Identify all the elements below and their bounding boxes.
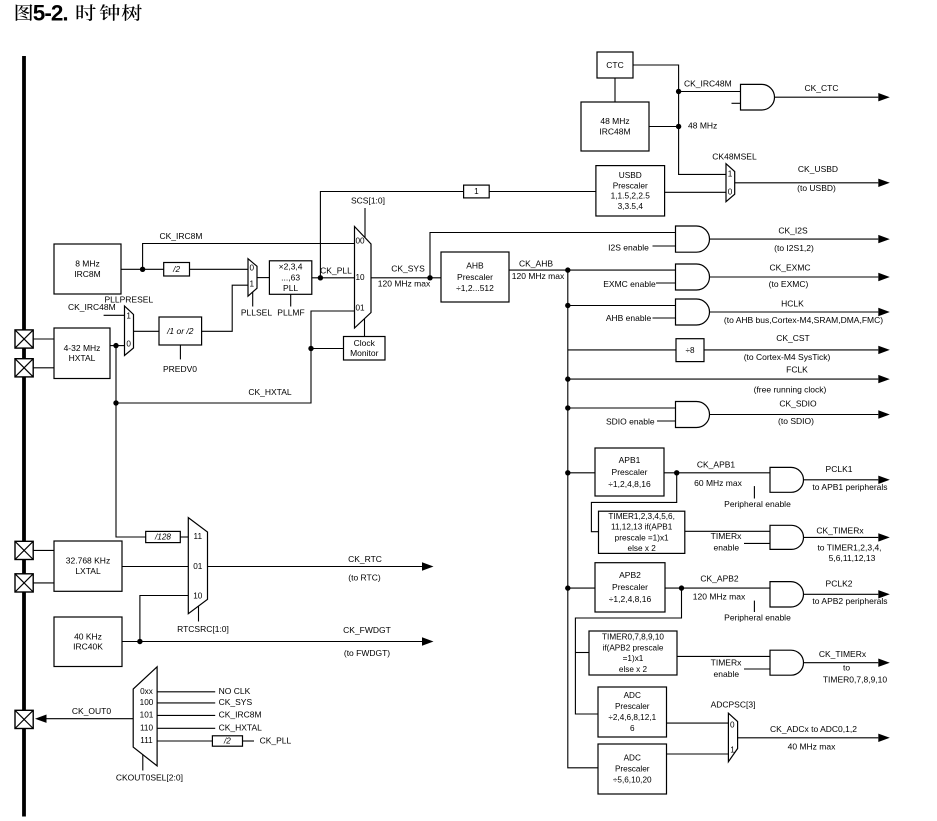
enable label peripheral (APB2) (724, 612, 791, 622)
svg-text:to TIMER1,2,3,4,: to TIMER1,2,3,4, (817, 542, 881, 552)
pin OSC32OUT (LXTAL) (15, 574, 33, 592)
svg-text:(to USBD): (to USBD) (797, 183, 836, 193)
arrow CK_FWDGT (140, 625, 434, 658)
svg-text:to APB1 peripherals: to APB1 peripherals (812, 482, 887, 492)
svg-text:ADC: ADC (624, 754, 641, 763)
junction IRC8M output (140, 267, 145, 272)
net label PREDV0 (163, 364, 197, 374)
svg-text:CK_TIMERx: CK_TIMERx (819, 649, 867, 659)
svg-text:TIMERx: TIMERx (711, 658, 742, 668)
block USBD Prescaler (596, 166, 665, 216)
svg-text:CK_EXMC: CK_EXMC (769, 262, 810, 272)
net label 120 MHz max (CK_SYS) (378, 279, 431, 289)
arrow CK_TIMERx (APB1) (804, 525, 890, 563)
svg-text:=1)x1: =1)x1 (623, 654, 644, 663)
net label RTCSRC[1:0] (177, 624, 229, 634)
mux SCS (system clock select) (355, 227, 372, 329)
wire OSCOUT to HXTAL (33, 367, 54, 369)
wire CK_HXTAL input (157, 727, 215, 729)
svg-text:enable: enable (714, 543, 740, 553)
svg-text:IRC48M: IRC48M (599, 126, 630, 136)
svg-text:CTC: CTC (606, 60, 623, 70)
svg-text:120 MHz max: 120 MHz max (512, 271, 565, 281)
net label CK_IRC8M (160, 231, 203, 241)
svg-text:/2: /2 (223, 737, 231, 746)
net label CK_APB2 (700, 574, 739, 584)
net label 120 MHz max (APB2) (693, 592, 746, 602)
svg-text:CK_USBD: CK_USBD (798, 164, 838, 174)
net label ADCPSC[3] (711, 700, 756, 710)
svg-text:/1 or /2: /1 or /2 (166, 326, 194, 336)
stub I2S enable (653, 245, 676, 247)
wire bus to APB1 prescaler (568, 472, 595, 474)
net label CK_SYS (out0) (219, 697, 253, 707)
stub TIMERx enable (APB2) (744, 668, 770, 670)
arrow CK_I2S (710, 226, 890, 253)
stub PLLSEL select (252, 292, 254, 307)
svg-text:10: 10 (355, 273, 365, 282)
wire CK_AHB bus vertical (568, 270, 598, 768)
and-gate SDIO (676, 402, 710, 428)
wire to CTC gate input (679, 91, 741, 93)
stub SCS mux to clock monitor (364, 319, 366, 337)
svg-text:PLLSEL: PLLSEL (241, 308, 272, 318)
wire IRC8M output (121, 268, 164, 270)
stub CKOUT0SEL select (142, 755, 144, 771)
svg-text:÷1,2,4,8,16: ÷1,2,4,8,16 (608, 479, 651, 489)
wire HXTAL out (110, 345, 125, 347)
junction clock monitor tap (308, 346, 313, 351)
svg-text:÷1,2...512: ÷1,2...512 (456, 283, 494, 293)
wire OSCIN to HXTAL (33, 338, 54, 340)
block Clock Monitor (344, 337, 386, 361)
wire CK_IRC8M input (157, 714, 215, 716)
svg-text:Prescaler: Prescaler (615, 702, 650, 711)
svg-text:TIMER0,7,8,9,10: TIMER0,7,8,9,10 (823, 674, 888, 684)
svg-text:CK_APB2: CK_APB2 (700, 574, 739, 584)
wire OSC32OUT to LXTAL (33, 582, 54, 584)
stub PLLMF select (290, 294, 292, 306)
svg-text:Peripheral enable: Peripheral enable (724, 612, 791, 622)
arrow CK_EXMC (710, 262, 890, 289)
svg-text:(to EXMC): (to EXMC) (769, 279, 809, 289)
net label CK_IRC8M (out0) (219, 710, 262, 720)
svg-text:(to RTC): (to RTC) (348, 572, 381, 582)
svg-text:11,12,13 if(APB1: 11,12,13 if(APB1 (611, 523, 673, 532)
mux RTCSRC (188, 518, 207, 614)
svg-text:prescale =1)x1: prescale =1)x1 (615, 533, 669, 542)
wire APB1 to TIMER1 multiplier (591, 473, 676, 532)
svg-text:(to I2S1,2): (to I2S1,2) (774, 243, 814, 253)
svg-text:3,3.5,4: 3,3.5,4 (618, 201, 644, 211)
svg-text:32.768 KHz: 32.768 KHz (66, 556, 110, 566)
and-gate PCLK2 (770, 582, 804, 607)
svg-text:01: 01 (193, 562, 203, 571)
svg-text:÷8: ÷8 (685, 346, 694, 355)
block TIMER1 multiplier (599, 511, 685, 553)
wire CK_SYS input (157, 702, 215, 704)
svg-text:CK_ADCx to ADC0,1,2: CK_ADCx to ADC0,1,2 (770, 724, 857, 734)
svg-text:PCLK2: PCLK2 (826, 578, 853, 588)
mux CKOUT0SEL (left-facing) (133, 667, 157, 766)
svg-text:0: 0 (728, 187, 733, 196)
svg-text:Prescaler: Prescaler (612, 467, 648, 477)
svg-text:5-2.: 5-2. (33, 1, 69, 26)
svg-text:CK_IRC48M: CK_IRC48M (68, 302, 116, 312)
wire 1-box to USBD prescaler (489, 191, 596, 193)
svg-text:to APB2 peripherals: to APB2 peripherals (812, 596, 887, 606)
block PLL multiplier (269, 261, 311, 295)
svg-text:NO CLK: NO CLK (219, 686, 251, 696)
svg-text:TIMERx: TIMERx (711, 531, 742, 541)
junction CK_IRC48M to CTC gate (676, 89, 681, 94)
net label CK_HXTAL (out0) (219, 723, 263, 733)
svg-text:SDIO enable: SDIO enable (606, 416, 655, 426)
block CTC (597, 52, 633, 78)
pin OSC32IN (LXTAL) (15, 541, 33, 559)
junction bus SDIO (565, 405, 570, 410)
svg-text:TIMER1,2,3,4,5,6,: TIMER1,2,3,4,5,6, (608, 512, 674, 521)
and-gate AHB (HCLK) (676, 299, 710, 325)
svg-text:120 MHz max: 120 MHz max (378, 279, 431, 289)
arrow CK_USBD (735, 164, 890, 193)
junction bus FCLK (565, 376, 570, 381)
svg-text:I2S enable: I2S enable (608, 242, 649, 252)
svg-text:AHB: AHB (466, 260, 484, 270)
svg-text:enable: enable (714, 669, 740, 679)
svg-text:CK_CTC: CK_CTC (804, 83, 838, 93)
svg-text:CK_HXTAL: CK_HXTAL (219, 723, 263, 733)
svg-text:(free running clock): (free running clock) (754, 384, 827, 394)
wire /2 to PLLSEL 0 (190, 268, 249, 270)
svg-text:PCLK1: PCLK1 (826, 464, 853, 474)
block AHB Prescaler (441, 252, 509, 302)
block ADC Prescaler (AHB) (598, 744, 667, 794)
junction CK_APB1 (674, 470, 679, 475)
svg-text:8 MHz: 8 MHz (75, 259, 100, 269)
wire OSC32IN to LXTAL (33, 549, 54, 551)
svg-text:IRC8M: IRC8M (74, 269, 100, 279)
wire CTC to IRC48M (614, 78, 616, 102)
wire USBD prescaler to CK48MSEL 0 (665, 191, 726, 193)
dest label HCLK (724, 315, 883, 325)
wire to clock monitor (311, 348, 344, 350)
junction HXTAL output (113, 343, 118, 348)
junction bus AHB enable (565, 303, 570, 308)
wire IRC40K to RTCSRC 10 (140, 596, 188, 642)
stub PCLK2 peripheral enable (753, 601, 755, 612)
arrow CK_RTC (208, 554, 434, 583)
svg-text:IRC40K: IRC40K (73, 642, 103, 652)
wire bus to div8 (568, 349, 676, 351)
svg-text:APB2: APB2 (619, 570, 641, 580)
svg-text:÷1,2,4,8,16: ÷1,2,4,8,16 (609, 594, 652, 604)
svg-text:CK_APB1: CK_APB1 (697, 459, 736, 469)
wire CK_PLL to SCS mux 10 (312, 277, 355, 279)
junction bus APB1 (565, 470, 570, 475)
mux ADCPSC (728, 713, 737, 762)
oscillator IRC8M (54, 244, 121, 294)
svg-text:/128: /128 (154, 533, 171, 542)
wire LXTAL to RTCSRC 01 (122, 566, 188, 568)
enable label AHB (606, 313, 652, 323)
svg-text:else x 2: else x 2 (619, 665, 648, 674)
net label 120 MHz max (CK_AHB) (512, 271, 565, 281)
stub CTC gate enable (732, 102, 741, 104)
svg-text:to: to (843, 662, 850, 672)
wire bus to APB2 prescaler (568, 587, 595, 589)
mux CK48MSEL (726, 164, 735, 202)
svg-text:0: 0 (730, 721, 735, 730)
and-gate I2S (676, 226, 710, 252)
pin OSCIN (HXTAL) (15, 330, 33, 348)
oscillator IRC48M (581, 102, 649, 151)
wire /128 to RTCSRC 11 (180, 536, 188, 538)
wire NO CLK input (157, 691, 215, 693)
block APB1 Prescaler (595, 448, 664, 496)
svg-text:0xx: 0xx (140, 687, 153, 696)
svg-text:TIMER0,7,8,9,10: TIMER0,7,8,9,10 (602, 632, 664, 641)
svg-text:00: 00 (355, 237, 365, 246)
net label CK_PLL (out0) (260, 735, 292, 745)
net label SCS[1:0] (351, 196, 385, 206)
svg-text:48 MHz: 48 MHz (600, 116, 629, 126)
stub SDIO enable (657, 420, 676, 422)
stub PCLK1 peripheral enable (753, 486, 755, 498)
wire PLLPRESEL out to PREDV0 (134, 330, 160, 332)
svg-text:6: 6 (630, 724, 635, 733)
svg-text:(to SDIO): (to SDIO) (778, 416, 814, 426)
svg-text:LXTAL: LXTAL (75, 566, 101, 576)
svg-text:0: 0 (126, 340, 131, 349)
svg-text:÷5,6,10,20: ÷5,6,10,20 (613, 776, 652, 785)
svg-text:10: 10 (193, 592, 203, 601)
svg-text:else x 2: else x 2 (628, 544, 657, 553)
wire CK_PLL up to USBD prescaler (320, 192, 463, 278)
svg-text:120 MHz max: 120 MHz max (693, 592, 746, 602)
arrow FCLK (568, 365, 890, 395)
wire CK_AHB (509, 269, 676, 271)
svg-text:PLLMF: PLLMF (277, 308, 304, 318)
pin OSCOUT (HXTAL) (15, 359, 33, 377)
pin CK_OUT0 (15, 710, 33, 728)
svg-text:Peripheral enable: Peripheral enable (724, 499, 791, 509)
junction CK_APB2 (679, 585, 684, 590)
svg-text:CK_SDIO: CK_SDIO (779, 399, 817, 409)
net label CK_PLL (320, 266, 352, 276)
block ADC Prescaler (APB2) (598, 687, 667, 737)
divider /2 (CK_PLL out0) (212, 736, 242, 746)
net label CK_HXTAL (248, 387, 292, 397)
wire CK_SYS (371, 277, 441, 279)
net label 60 MHz max (694, 478, 742, 488)
svg-text:CK_SYS: CK_SYS (391, 264, 425, 274)
svg-text:1: 1 (730, 745, 735, 754)
svg-text:FCLK: FCLK (786, 365, 808, 375)
junction CK_SYS (427, 275, 432, 280)
svg-text:CK_IRC48M: CK_IRC48M (684, 79, 732, 89)
arrow CK_TIMERx (APB2) (804, 649, 890, 684)
svg-text:CK_FWDGT: CK_FWDGT (343, 625, 391, 635)
wire PLLSEL out to PLL (257, 277, 269, 279)
svg-text:1: 1 (728, 170, 733, 179)
svg-text:CK_PLL: CK_PLL (320, 266, 352, 276)
svg-text:Prescaler: Prescaler (613, 180, 648, 190)
and-gate CTC clock (741, 84, 775, 110)
wire ADC prescaler APB2 to mux 0 (667, 722, 729, 724)
svg-text:HXTAL: HXTAL (69, 353, 96, 363)
svg-text:CK48MSEL: CK48MSEL (712, 151, 757, 161)
wire CK_HXTAL vertical (116, 346, 146, 537)
net label CK_IRC48M (input) (68, 302, 116, 312)
svg-text:Prescaler: Prescaler (457, 272, 493, 282)
svg-text:×2,3,4: ×2,3,4 (279, 262, 303, 272)
wire CTC to CK48M net (633, 65, 726, 174)
junction IRC40K output (137, 639, 142, 644)
net label NO CLK (219, 686, 251, 696)
net label CKOUT0SEL[2:0] (116, 773, 183, 783)
svg-text:EXMC enable: EXMC enable (603, 279, 656, 289)
svg-text:CK_TIMERx: CK_TIMERx (816, 525, 864, 535)
svg-text:(to FWDGT): (to FWDGT) (344, 648, 390, 658)
svg-text:CK_IRC8M: CK_IRC8M (160, 231, 203, 241)
svg-text:PLL: PLL (283, 283, 298, 293)
svg-text:(to Cortex-M4 SysTick): (to Cortex-M4 SysTick) (744, 352, 831, 362)
enable label TIMERx (APB2) (711, 658, 742, 668)
and-gate CK_TIMERx (APB1) (770, 525, 804, 549)
wire bus to SDIO gate (568, 407, 676, 409)
net label CK48MSEL (712, 151, 757, 161)
svg-text:APB1: APB1 (619, 455, 641, 465)
enable label TIMERx enable (APB1) (714, 543, 740, 553)
wire IRC48M out (649, 126, 679, 128)
arrow CK_CTC (775, 83, 890, 101)
enable label TIMERx enable (APB2) (714, 669, 740, 679)
svg-text:1: 1 (126, 312, 131, 321)
wire TIMER0 mult to gate (677, 655, 770, 657)
arrow CK_ADCx (738, 724, 890, 751)
svg-text:(to AHB bus,Cortex-M4,SRAM,DMA: (to AHB bus,Cortex-M4,SRAM,DMA,FMC) (724, 315, 883, 325)
svg-text:1: 1 (250, 279, 255, 288)
svg-text:ADCPSC[3]: ADCPSC[3] (711, 700, 756, 710)
and-gate EXMC (676, 264, 710, 290)
svg-text:111: 111 (140, 736, 153, 745)
wire CK_IRC48M to PLLPRESEL 1 (104, 314, 125, 316)
svg-text:if(APB2 prescale: if(APB2 prescale (603, 643, 664, 652)
svg-text:÷2,4,6,8,12,1: ÷2,4,6,8,12,1 (608, 713, 656, 722)
title 图5-2. 时钟树 (16, 1, 142, 26)
svg-text:CK_PLL: CK_PLL (260, 735, 292, 745)
svg-text:CK_AHB: CK_AHB (519, 258, 553, 268)
wire IRC40K out (122, 641, 140, 643)
svg-text:USBD: USBD (619, 170, 642, 180)
enable label SDIO (606, 416, 655, 426)
stub SCS select (364, 208, 366, 238)
wire /2 to CK_PLL label (243, 740, 255, 742)
svg-text:HCLK: HCLK (781, 298, 804, 308)
junction 48 MHz (676, 124, 681, 129)
and-gate PCLK1 (770, 467, 804, 492)
svg-text:CK_OUT0: CK_OUT0 (72, 706, 111, 716)
stub EXMC enable (656, 282, 676, 284)
block fixed 1 (SCS to USBD) (464, 185, 490, 198)
arrow CK_SDIO (710, 399, 890, 426)
divider PREDV0 /1 or /2 (159, 317, 202, 345)
svg-text:5,6,11,12,13: 5,6,11,12,13 (829, 553, 876, 563)
svg-text:0: 0 (250, 263, 255, 272)
mux PLLPRESEL (125, 306, 134, 356)
wire CK_IRC8M to SCS mux 00 (143, 244, 355, 270)
wire APB2 branch down (575, 588, 681, 714)
wire CK_HXTAL to SCS mux 01 (116, 311, 355, 403)
stub RTCSRC select (198, 606, 200, 621)
svg-text:40 KHz: 40 KHz (74, 631, 102, 641)
svg-text:110: 110 (140, 723, 153, 732)
svg-text:CKOUT0SEL[2:0]: CKOUT0SEL[2:0] (116, 773, 183, 783)
junction CK_HXTAL branch (113, 400, 118, 405)
svg-text:Prescaler: Prescaler (615, 765, 650, 774)
divider div8 (SysTick) (676, 339, 704, 362)
enable label I2S (608, 242, 649, 252)
block APB2 Prescaler (595, 563, 665, 612)
wire APB2 to TIMER0 multiplier (575, 652, 589, 654)
wire CK_PLL input to /2 (157, 740, 212, 742)
svg-text:CK_RTC: CK_RTC (348, 554, 382, 564)
svg-text:60 MHz max: 60 MHz max (694, 478, 742, 488)
svg-text:Clock: Clock (354, 338, 376, 348)
net label CK_SYS (391, 264, 425, 274)
net label PLLPRESEL (105, 294, 154, 304)
net label 48 MHz (688, 120, 717, 130)
stub TIMERx enable (APB1) (744, 542, 770, 544)
net label CK_APB1 (697, 459, 736, 469)
stub PREDV0 (179, 345, 181, 359)
enable label EXMC (603, 279, 656, 289)
oscillator IRC40K (54, 617, 122, 667)
svg-text:SCS[1:0]: SCS[1:0] (351, 196, 385, 206)
enable label peripheral (APB1) (724, 499, 791, 509)
svg-text:11: 11 (194, 532, 203, 541)
net label PLLSEL (241, 308, 272, 318)
arrow CK_OUT0 (to pin) (35, 706, 133, 723)
mux PLLSEL (248, 259, 257, 297)
svg-text:48 MHz: 48 MHz (688, 120, 717, 130)
wire CK_APB1 (664, 472, 770, 474)
divider /128 (HXTAL) (146, 531, 181, 542)
arrow PCLK2 (804, 578, 890, 606)
svg-text:1: 1 (474, 187, 479, 196)
svg-text:CK_HXTAL: CK_HXTAL (248, 387, 292, 397)
oscillator HXTAL (54, 328, 110, 379)
wire CK_SYS up to I2S gate (430, 233, 676, 278)
arrow CK_CST (704, 333, 890, 362)
svg-text:40 MHz max: 40 MHz max (788, 741, 836, 751)
arrow HCLK (710, 298, 890, 316)
stub AHB enable (653, 317, 676, 319)
svg-text:CK_IRC8M: CK_IRC8M (219, 710, 262, 720)
arrow PCLK1 (804, 464, 890, 492)
svg-text:CK_CST: CK_CST (776, 333, 810, 343)
wire CK_APB2 (665, 587, 770, 589)
svg-text:4-32 MHz: 4-32 MHz (64, 343, 101, 353)
svg-text:RTCSRC[1:0]: RTCSRC[1:0] (177, 624, 229, 634)
junction CK_PLL (318, 275, 323, 280)
junction bus CK_AHB top (565, 267, 570, 272)
svg-text:01: 01 (355, 303, 365, 312)
pin bus (thick vertical line) (22, 56, 26, 817)
and-gate CK_TIMERx (APB2) (770, 650, 804, 675)
svg-text:ADC: ADC (624, 691, 641, 700)
